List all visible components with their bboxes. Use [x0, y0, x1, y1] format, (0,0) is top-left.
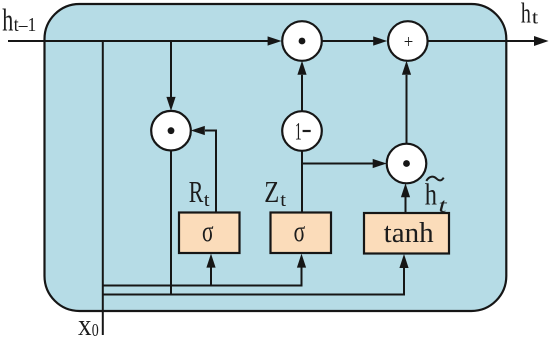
sigma box S2 (update gate) [271, 213, 332, 254]
wire: sigma box S2 output up to 1- circle [301, 151, 303, 213]
wire: h(t-1) main horizontal line entering from left [8, 40, 269, 42]
svg-text:t: t [204, 190, 211, 211]
svg-text:σ: σ [202, 215, 214, 248]
wire: branch arrow up into sigma box S1 bottom [210, 267, 212, 286]
arrowhead into multiply circle M3 bottom [401, 183, 410, 197]
svg-text:t: t [280, 190, 287, 211]
svg-text:R: R [189, 175, 204, 209]
arrowhead into add circle bottom [402, 61, 411, 75]
arrowhead into multiply circle M3 left [373, 159, 387, 168]
wire: between multiply circle M2 and add circle [322, 40, 374, 42]
svg-text:t–1: t–1 [14, 14, 37, 36]
wire: output h(t) line exiting right [428, 40, 535, 42]
svg-text:Z: Z [264, 175, 279, 209]
add circle [388, 21, 428, 61]
arrowhead into sigma box S1 bottom [206, 254, 215, 268]
arrowhead into multiply circle M2 bottom [297, 61, 306, 75]
arrowhead into sigma box S2 bottom [297, 254, 306, 268]
arrowhead into add circle [373, 36, 387, 45]
svg-text:tanh: tanh [384, 218, 434, 249]
svg-text:h: h [521, 0, 531, 29]
arrowhead of h(t) output [534, 36, 549, 46]
arrowhead into tanh box bottom [399, 254, 408, 268]
tanh box [364, 213, 449, 254]
svg-text:t: t [438, 195, 447, 217]
wire: multiply circle M3 output up to add circle [406, 75, 408, 144]
wire: branch down from main line to multiply circle M1 [170, 41, 172, 98]
wire: tanh output up to multiply circle M3 [405, 197, 407, 213]
GRU cell body (rounded rectangle) [45, 4, 507, 311]
arrowhead into multiply circle M1 right [191, 126, 205, 135]
multiply circle M2 (top, z*h) [282, 21, 322, 61]
svg-text:0: 0 [92, 320, 99, 340]
svg-text:σ: σ [294, 215, 306, 248]
wire: branch from z line right into multiply circle M3 [302, 163, 373, 165]
multiply circle M3 (candidate product) [387, 144, 427, 184]
wire: R(t) output from sigma box S1 up and left into M1 [205, 131, 216, 213]
arrowhead into multiply circle M2 [268, 36, 282, 45]
svg-text:1: 1 [295, 119, 302, 146]
tilde over h [426, 177, 443, 181]
wire: bottom bus line 1 (x0 to sigma boxes) with turn up into S2 [103, 267, 302, 286]
wire: multiply circle M1 output down to bottom bus [170, 151, 172, 295]
wire: x0 vertical line [102, 41, 104, 335]
wire: bottom bus line 2 (to tanh box) with turn up [103, 268, 404, 295]
svg-text:h: h [2, 1, 13, 37]
svg-text:+: + [404, 33, 414, 53]
arrowhead into multiply circle M1 top [166, 97, 175, 111]
sigma box S1 (reset gate) [179, 213, 240, 254]
svg-text:x: x [78, 307, 92, 340]
svg-text:t: t [532, 8, 539, 29]
wire: 1- circle output up to multiply circle M2 [301, 75, 303, 111]
svg-text:h: h [425, 176, 438, 211]
multiply circle M1 (reset gate product) [151, 111, 191, 151]
1- circle [282, 111, 322, 151]
